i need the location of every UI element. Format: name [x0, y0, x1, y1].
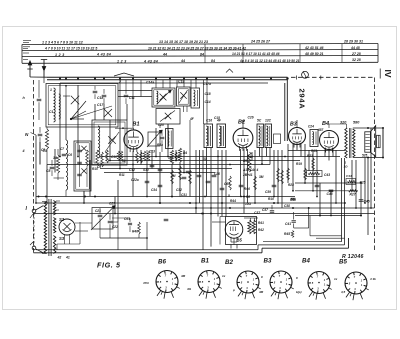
- resistor R12a: [171, 170, 174, 184]
- wire: [367, 128, 369, 132]
- wire: [328, 124, 330, 128]
- wire: [43, 77, 45, 83]
- IF transformer can 3: [257, 124, 264, 148]
- svg-text:R5a: R5a: [157, 143, 163, 147]
- tube B1: [124, 130, 143, 149]
- svg-text:C16: C16: [206, 119, 212, 123]
- tone box: [92, 208, 112, 228]
- svg-text:10Ω: 10Ω: [245, 202, 252, 206]
- wire: [140, 80, 142, 97]
- resistor R10b: [101, 152, 104, 167]
- IF transformer can 1: [204, 124, 213, 148]
- svg-text:27 28: 27 28: [351, 52, 361, 56]
- svg-text:4: 4: [22, 149, 25, 153]
- capacitor C40: [272, 184, 277, 186]
- dial lamp: [302, 71, 309, 78]
- svg-text:R28: R28: [288, 183, 294, 187]
- wire: [195, 80, 197, 88]
- svg-text:C14a: C14a: [146, 81, 154, 85]
- svg-text:R40: R40: [132, 230, 138, 234]
- svg-text:IV: IV: [383, 69, 393, 77]
- shield box osc coil: [92, 120, 127, 165]
- svg-text:24 25 26 27: 24 25 26 27: [250, 40, 271, 44]
- wire: [112, 217, 130, 219]
- svg-text:C64: C64: [224, 182, 230, 186]
- svg-text:12C: 12C: [265, 119, 272, 123]
- earth arrow: [43, 60, 45, 71]
- svg-text:C20: C20: [158, 123, 164, 127]
- bus wire: [47, 164, 270, 166]
- bus junction dots: [59, 78, 61, 80]
- switch S5: [108, 136, 116, 144]
- shield box RF input: [46, 84, 118, 128]
- svg-text:S3: S3: [59, 236, 65, 241]
- resistor R8z: [254, 176, 257, 190]
- svg-text:C41: C41: [285, 222, 291, 226]
- left margin bracket marks: [23, 40, 31, 42]
- svg-text:B3: B3: [264, 258, 272, 265]
- svg-text:B4: B4: [302, 258, 310, 265]
- svg-text:R19: R19: [296, 162, 302, 166]
- svg-text:R41: R41: [258, 221, 264, 225]
- coil L2: [59, 94, 61, 119]
- shield box osc 2: [177, 87, 191, 106]
- svg-text:C1: C1: [49, 110, 53, 114]
- capacitor C6: [62, 153, 67, 155]
- svg-text:C9: C9: [97, 165, 101, 169]
- wire: [310, 235, 342, 237]
- switch S6 arm: [157, 91, 170, 104]
- svg-text:C38: C38: [284, 204, 290, 208]
- small box: [346, 179, 356, 185]
- bus wire: [100, 156, 340, 158]
- svg-text:5C: 5C: [257, 119, 262, 123]
- wire: [231, 241, 237, 243]
- wire: [79, 222, 81, 244]
- svg-text:48 49 50 21: 48 49 50 21: [304, 52, 324, 56]
- tube socket B6: [156, 271, 178, 293]
- svg-text:4M: 4M: [258, 290, 264, 294]
- wiring verticals: [35, 135, 37, 203]
- capacitor C24: [158, 168, 163, 170]
- svg-text:R46: R46: [244, 187, 250, 191]
- grid cap wire B3: [296, 120, 298, 128]
- tube socket B2: [237, 271, 259, 293]
- svg-text:R8: R8: [246, 195, 250, 199]
- svg-text:4 7 8 9 10 11 12 17 15 18 19 2: 4 7 8 9 10 11 12 17 15 18 19 22 5: [44, 47, 97, 51]
- svg-text:44: 44: [180, 59, 185, 63]
- terminal strip table rules: [22, 44, 378, 45]
- resistor R1: [46, 127, 48, 129]
- svg-text:14 21 51 6 17 10 11 41 43 45 4: 14 21 51 6 17 10 11 41 43 45 46: [232, 52, 280, 56]
- svg-text:R45: R45: [284, 232, 290, 236]
- svg-text:B2: B2: [238, 120, 245, 126]
- tube B3: [289, 128, 306, 145]
- wire: [30, 76, 47, 78]
- svg-text:C11: C11: [129, 96, 135, 100]
- capacitor C42: [164, 218, 169, 220]
- resistor R23: [312, 158, 315, 170]
- chassis border right dashed: [374, 78, 376, 253]
- shield box AF inner: [220, 216, 226, 218]
- bus wire: [36, 196, 295, 198]
- bus wire: [36, 202, 345, 204]
- wire speaker bottom: [353, 157, 383, 159]
- svg-text:41: 41: [65, 256, 70, 260]
- wire: [250, 218, 252, 221]
- band switch S4a contact: [104, 109, 112, 117]
- trimmer C3: [93, 90, 98, 92]
- svg-text:3M: 3M: [171, 174, 176, 178]
- capacitor C44b: [315, 184, 320, 186]
- power transformer secondary mid: [53, 218, 55, 234]
- wire: [42, 205, 47, 207]
- resistor R6b: [143, 151, 145, 161]
- svg-text:p: p: [232, 288, 235, 292]
- switch S7 arm: [179, 90, 188, 103]
- wire: [56, 209, 59, 211]
- bus wire: [108, 160, 300, 162]
- svg-text:1: 1: [50, 88, 52, 92]
- svg-text:1x: 1x: [334, 277, 338, 281]
- svg-text:C12: C12: [129, 168, 135, 172]
- HT supply bus: [47, 76, 288, 78]
- svg-text:R42: R42: [258, 228, 264, 232]
- coil L5: [98, 126, 100, 158]
- wire: [65, 86, 67, 97]
- svg-text:R27: R27: [350, 193, 356, 197]
- wire: [117, 222, 119, 250]
- svg-text:A15,C44 4: A15,C44 4: [242, 168, 258, 172]
- svg-text:4 3k: 4 3k: [369, 277, 376, 281]
- tuning capacitor C13: [148, 132, 160, 146]
- IF transformer can 2: [217, 124, 226, 148]
- capacitor C22: [108, 220, 113, 222]
- capacitor C61: [128, 222, 132, 224]
- svg-text:294A: 294A: [298, 89, 307, 110]
- svg-text:B1: B1: [133, 122, 140, 128]
- svg-text:C17: C17: [97, 103, 104, 107]
- svg-text:47Ω: 47Ω: [142, 281, 149, 285]
- svg-text:42 43 51 46: 42 43 51 46: [304, 46, 324, 50]
- capacitor C33: [158, 184, 163, 186]
- tube B2: [233, 128, 253, 148]
- capacitor C8: [50, 166, 55, 168]
- svg-text:40: 40: [121, 159, 126, 163]
- capacitor C35: [197, 174, 202, 176]
- oscillator can: [191, 88, 200, 108]
- tube B5: [225, 221, 243, 239]
- svg-text:4p 8 4 10 11 12 13 44 45 41 48: 4p 8 4 10 11 12 13 44 45 41 48 19 50 21: [239, 59, 300, 63]
- svg-text:C37: C37: [262, 208, 268, 212]
- wire: [99, 228, 101, 238]
- resistor R10c: [106, 150, 109, 163]
- output transformer T2: [345, 128, 347, 158]
- svg-text:B6: B6: [158, 259, 166, 266]
- svg-text:C32: C32: [176, 188, 182, 192]
- power transformer secondary S3: [53, 236, 55, 254]
- resistor R45: [291, 231, 294, 238]
- svg-text:C31: C31: [181, 193, 187, 197]
- chassis bottom edge right: [262, 247, 349, 249]
- resistor R3: [86, 150, 89, 166]
- svg-text:5: 5: [228, 194, 230, 198]
- coil L1: [54, 88, 56, 122]
- svg-text:C22a: C22a: [131, 178, 139, 182]
- chassis bottom edge step: [261, 248, 263, 253]
- capacitor C36: [206, 180, 211, 182]
- switch S8 contact: [165, 113, 171, 119]
- resistor R40: [138, 222, 141, 234]
- svg-text:C37: C37: [254, 211, 260, 215]
- capacitor C38a: [291, 197, 296, 199]
- capacitor C21: [98, 214, 103, 216]
- grid cap wire B2: [242, 121, 244, 128]
- bus wire: [295, 182, 362, 184]
- bus wire: [295, 190, 358, 192]
- tube socket B3: [270, 271, 292, 293]
- svg-text:84: 84: [200, 52, 204, 56]
- svg-text:2: 2: [118, 80, 121, 84]
- svg-text:4M: 4M: [180, 274, 186, 278]
- wire: [39, 142, 41, 165]
- resistor R42: [252, 220, 255, 234]
- resistor R27: [349, 190, 358, 192]
- trimmer C4: [102, 94, 107, 96]
- resistor R5: [170, 150, 173, 164]
- resistor R4: [178, 148, 181, 162]
- svg-text:S10: S10: [143, 168, 149, 172]
- svg-text:C61: C61: [124, 217, 130, 221]
- svg-text:C19: C19: [178, 80, 184, 84]
- wire speaker top: [353, 127, 383, 129]
- capacitor C30: [186, 170, 191, 172]
- terminal strip ticks: [204, 44, 206, 63]
- junction dots: [59, 156, 61, 158]
- svg-text:B5: B5: [339, 259, 347, 266]
- svg-text:C46: C46: [327, 192, 333, 196]
- svg-text:k(p): k(p): [296, 290, 302, 294]
- wire: [146, 222, 148, 250]
- bus wire: [104, 172, 215, 174]
- wire: [56, 244, 58, 250]
- bus wire: [288, 150, 345, 152]
- svg-text:B5: B5: [237, 238, 243, 243]
- resistor R25: [348, 180, 357, 182]
- chassis bottom edge left: [34, 252, 263, 254]
- svg-text:3M: 3M: [259, 175, 264, 179]
- svg-text:C27: C27: [109, 202, 115, 206]
- antenna coupling cap: [38, 80, 40, 98]
- svg-text:2B+41: 2B+41: [242, 173, 253, 177]
- svg-text:10 21 32 61 34 21 22 23 24 25: 10 21 32 61 34 21 22 23 24 25 26 27 28 2…: [148, 46, 246, 50]
- svg-text:4 43 84: 4 43 84: [96, 53, 111, 57]
- wire: [64, 240, 66, 244]
- svg-text:C43: C43: [324, 173, 330, 177]
- junction dots right: [360, 182, 362, 184]
- svg-text:1x: 1x: [222, 274, 226, 278]
- chassis border top right dashed: [291, 76, 375, 78]
- svg-text:28 29 30 31: 28 29 30 31: [343, 39, 363, 43]
- small box tuning: [54, 177, 65, 179]
- svg-text:84: 84: [211, 59, 215, 63]
- resistor R6c: [147, 151, 149, 161]
- resistor R5c: [120, 151, 122, 161]
- coil L3: [157, 91, 158, 104]
- bus junction node: [286, 77, 288, 79]
- resistor R24 boxed: [307, 171, 323, 177]
- resistor R6: [136, 152, 139, 163]
- svg-text:C14: C14: [205, 100, 211, 104]
- IF transformer can 5: [310, 130, 318, 147]
- resistor R17: [229, 176, 232, 190]
- svg-text:R18: R18: [247, 155, 253, 159]
- small box diode load: [274, 134, 281, 144]
- svg-text:1 2 3: 1 2 3: [55, 53, 65, 57]
- capacitor C41: [293, 212, 295, 220]
- resistor R21: [281, 170, 284, 184]
- IF transformer can 0: [166, 129, 174, 149]
- svg-text:R15: R15: [311, 149, 317, 153]
- resistor R41: [248, 220, 251, 234]
- resistor R16: [189, 170, 192, 184]
- oscillator coil L6: [66, 140, 68, 190]
- resistor R20: [277, 168, 280, 182]
- svg-text:C44: C44: [346, 174, 352, 178]
- tube socket B4: [308, 272, 330, 294]
- capacitor C31a: [182, 176, 187, 178]
- svg-text:C10: C10: [111, 155, 117, 159]
- capacitor C28: [212, 174, 217, 176]
- resistor R9: [248, 152, 251, 172]
- band switch S4 contact: [71, 96, 79, 104]
- capacitor C46: [329, 189, 334, 191]
- svg-text:R10: R10: [290, 198, 296, 202]
- wire: [146, 150, 148, 157]
- resistor R13: [179, 166, 182, 180]
- wire: [132, 80, 134, 128]
- capacitor C37: [270, 210, 274, 212]
- link wires: [118, 90, 152, 92]
- svg-text:B2: B2: [225, 259, 233, 266]
- svg-text:42: 42: [57, 256, 62, 260]
- svg-text:4Ω: 4Ω: [186, 287, 192, 291]
- svg-text:13 14 15 16 17 18 19 20 21 23: 13 14 15 16 17 18 19 20 21 23: [159, 40, 208, 44]
- resistor R28: [287, 168, 290, 180]
- svg-text:C7: C7: [60, 147, 64, 151]
- switch S6 contact: [160, 94, 167, 101]
- resistor R2: [56, 155, 59, 173]
- svg-text:C24: C24: [308, 125, 314, 129]
- heater wires: [38, 201, 42, 203]
- svg-text:B3: B3: [290, 122, 297, 128]
- bus wire: [115, 207, 375, 209]
- svg-text:C18: C18: [205, 92, 211, 96]
- tube socket B1: [198, 271, 220, 293]
- mains switch S1: [32, 209, 36, 213]
- svg-text:580: 580: [353, 121, 360, 125]
- resistor R22: [304, 168, 307, 180]
- svg-text:C34: C34: [151, 188, 157, 192]
- resistor R10a: [96, 150, 99, 165]
- shield box osc 3: [156, 109, 180, 125]
- wire: [155, 80, 157, 88]
- svg-text:C28: C28: [214, 172, 220, 176]
- capacitor C34: [145, 180, 150, 182]
- svg-text:4,5: 4,5: [340, 290, 346, 294]
- svg-text:C21: C21: [95, 209, 101, 213]
- svg-text:C26: C26: [248, 116, 254, 120]
- wire: [119, 80, 121, 120]
- svg-text:525: 525: [362, 154, 368, 158]
- svg-text:B1: B1: [201, 258, 209, 265]
- resistor R7: [140, 152, 143, 163]
- resistor R5b: [117, 151, 119, 161]
- svg-text:687: 687: [318, 128, 324, 132]
- power transformer primary: [44, 202, 46, 254]
- svg-text:1 2 3: 1 2 3: [117, 59, 127, 63]
- capacitor C45: [359, 199, 364, 201]
- bus corner drop: [284, 83, 286, 141]
- wire: [59, 83, 61, 86]
- svg-text:30: 30: [203, 157, 207, 161]
- loudspeaker: [365, 132, 371, 152]
- field coil wire: [382, 128, 384, 158]
- svg-text:R23: R23: [307, 154, 313, 158]
- switch S7 contact: [180, 92, 186, 98]
- IF transformer can 4: [265, 124, 272, 148]
- bus wire: [100, 168, 232, 170]
- shield box AF: [226, 217, 257, 245]
- svg-text:FIG. 5: FIG. 5: [97, 261, 121, 270]
- choke box: [92, 208, 113, 230]
- wire: [83, 191, 85, 203]
- svg-text:C39: C39: [265, 190, 271, 194]
- tube B4: [320, 131, 339, 150]
- svg-text:44: 44: [162, 53, 167, 57]
- svg-text:4 43 84: 4 43 84: [143, 59, 158, 63]
- power transformer secondary S2: [53, 201, 55, 216]
- svg-text:44 45: 44 45: [350, 46, 360, 50]
- bus wire: [295, 215, 361, 217]
- capacitor C23: [150, 164, 155, 166]
- band switch S4 wiper: [71, 101, 86, 119]
- svg-text:C5: C5: [41, 148, 45, 152]
- capacitor C64: [220, 187, 225, 189]
- shield box padder: [74, 141, 91, 191]
- wire: [212, 221, 226, 223]
- antenna arrow: [29, 62, 31, 78]
- svg-text:C6: C6: [68, 153, 72, 157]
- capacitor C5: [38, 133, 43, 135]
- svg-text:1 2 3 4 5 6 7 8 9 10 11 12: 1 2 3 4 5 6 7 8 9 10 11 12: [42, 41, 83, 45]
- bus wire: [34, 213, 375, 215]
- svg-text:B4: B4: [322, 121, 329, 127]
- capacitor C20: [160, 136, 165, 138]
- resistor R14: [175, 152, 177, 160]
- padder trimmers: [77, 149, 82, 151]
- chassis border left dashed: [33, 80, 35, 253]
- svg-text:R44: R44: [230, 199, 236, 203]
- capacitor C29: [239, 184, 244, 186]
- small box filter: [90, 206, 112, 210]
- svg-text:R10: R10: [268, 197, 274, 201]
- caret mark: [226, 69, 233, 73]
- svg-text:R11: R11: [119, 173, 125, 177]
- rectifier tube B6: [59, 219, 75, 235]
- tube socket B5: [345, 272, 367, 294]
- shield box osc 1: [152, 88, 175, 107]
